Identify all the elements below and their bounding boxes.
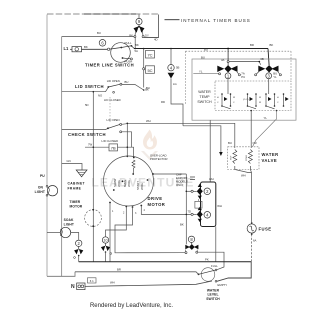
svg-text:WATER: WATER xyxy=(198,90,211,94)
svg-text:7B: 7B xyxy=(111,146,116,151)
left rail lower xyxy=(46,196,48,277)
check switch xyxy=(62,118,132,147)
svg-text:BU: BU xyxy=(97,31,101,35)
svg-text:TEMP: TEMP xyxy=(200,95,211,99)
circled 1 contact pair xyxy=(193,48,245,80)
svg-text:SOAK: SOAK xyxy=(64,218,74,222)
svg-text:TIMER LINE SWITCH: TIMER LINE SWITCH xyxy=(85,62,134,67)
svg-text:7D: 7D xyxy=(188,210,192,214)
svg-text:ONLY: ONLY xyxy=(176,183,184,187)
svg-text:PROTECTOR: PROTECTOR xyxy=(150,157,168,161)
svg-text:6A: 6A xyxy=(253,239,257,243)
svg-text:Rendered by LeadVenture, Inc.: Rendered by LeadVenture, Inc. xyxy=(90,303,173,309)
contacts inside water temp box xyxy=(222,94,284,106)
svg-text:BU: BU xyxy=(201,55,205,59)
dark bottom wire A xyxy=(79,261,252,263)
soak light xyxy=(47,218,79,240)
7C box xyxy=(146,51,155,59)
svg-text:BK: BK xyxy=(270,43,274,47)
svg-text:5B: 5B xyxy=(176,66,180,70)
5D drop / timer motor feed xyxy=(92,92,94,262)
svg-text:CABINET: CABINET xyxy=(68,182,85,186)
drive motor circle xyxy=(104,156,154,206)
svg-text:WDG: WDG xyxy=(127,180,131,187)
61 box xyxy=(88,278,97,283)
svg-text:INTERNAL TIMER BUSS: INTERNAL TIMER BUSS xyxy=(181,18,251,23)
BR return wire xyxy=(75,272,199,275)
valve outputs to fuse xyxy=(235,166,252,173)
svg-text:LID CLOSED: LID CLOSED xyxy=(104,98,121,102)
fuse xyxy=(247,222,271,262)
cabinet frame ground xyxy=(62,159,87,191)
water temp switch dashed box xyxy=(215,81,291,111)
circled 4 with contact xyxy=(161,48,183,126)
svg-text:WDG: WDG xyxy=(140,183,144,190)
svg-text:10: 10 xyxy=(104,239,108,243)
svg-text:BR: BR xyxy=(117,268,121,272)
svg-text:HOT: HOT xyxy=(231,155,233,160)
svg-text:LG: LG xyxy=(173,82,177,86)
svg-text:6 1: 6 1 xyxy=(90,279,94,283)
svg-text:PU: PU xyxy=(241,75,245,79)
5C box xyxy=(146,66,155,74)
internal timer buss callout xyxy=(165,19,180,21)
svg-text:SWITCH: SWITCH xyxy=(197,100,212,104)
svg-text:L1: L1 xyxy=(64,46,70,51)
svg-text:WH: WH xyxy=(146,119,151,123)
svg-text:3B: 3B xyxy=(260,57,264,61)
levers at bottom of temp switch xyxy=(224,97,289,101)
dashed link lid-check xyxy=(109,97,111,122)
connector contact 4 xyxy=(191,213,193,215)
circled 8 cam switch xyxy=(185,236,224,270)
svg-text:PULL: PULL xyxy=(125,41,132,45)
svg-text:BK: BK xyxy=(180,223,184,227)
svg-text:YL: YL xyxy=(273,75,277,79)
svg-text:WDG: WDG xyxy=(117,180,121,187)
svg-text:WH: WH xyxy=(110,281,115,285)
top rail (internal timer buss) xyxy=(47,13,159,15)
wire sw9 left contact to left drop xyxy=(62,36,135,38)
svg-text:FRAME: FRAME xyxy=(68,186,82,190)
left rail bottom corner xyxy=(47,272,75,277)
connector box with circled 2 and 4 xyxy=(201,182,216,227)
svg-text:FULL: FULL xyxy=(211,264,218,268)
7B box and wire xyxy=(85,146,109,148)
svg-text:LIGHT: LIGHT xyxy=(64,223,74,227)
svg-text:GN: GN xyxy=(67,159,71,163)
svg-text:LID SWITCH: LID SWITCH xyxy=(75,84,104,89)
box bottom exits xyxy=(250,110,252,112)
circled 3 contact pair xyxy=(255,65,282,79)
svg-text:BU: BU xyxy=(125,80,129,84)
circled 2 cam switch xyxy=(74,240,84,262)
svg-text:5A: 5A xyxy=(135,49,139,53)
svg-text:MOTOR: MOTOR xyxy=(148,202,166,207)
circled 6 xyxy=(99,40,106,47)
watermark flame logo xyxy=(141,130,158,161)
svg-text:YL: YL xyxy=(199,69,203,73)
sw9 left terminal down to main wire xyxy=(134,38,136,49)
svg-text:3A: 3A xyxy=(221,58,225,62)
svg-text:5D: 5D xyxy=(85,103,89,107)
svg-text:7C: 7C xyxy=(147,53,152,58)
svg-text:VALVE: VALVE xyxy=(262,158,278,163)
svg-text:FUSE: FUSE xyxy=(259,227,272,232)
on light xyxy=(35,185,58,196)
svg-text:LIGHT: LIGHT xyxy=(35,190,45,194)
motor internal labels (rotated) xyxy=(113,178,144,190)
BK drop right xyxy=(268,49,269,66)
svg-text:WH: WH xyxy=(241,174,246,178)
svg-text:PU: PU xyxy=(40,174,45,178)
sw9 right terminal to drop xyxy=(144,36,159,38)
svg-text:4D: 4D xyxy=(154,38,158,42)
svg-text:LID OPEN: LID OPEN xyxy=(107,118,120,122)
svg-text:5C: 5C xyxy=(147,68,152,73)
top rail right drop xyxy=(144,15,159,38)
switch 9 xyxy=(129,15,149,38)
svg-text:WH: WH xyxy=(209,177,214,181)
svg-text:7W: 7W xyxy=(88,143,93,147)
motor internal dots xyxy=(109,157,148,208)
svg-text:RD: RD xyxy=(161,100,165,104)
circled 10 cam switch xyxy=(101,237,112,262)
motor leads down xyxy=(109,203,111,262)
svg-text:DRIVE: DRIVE xyxy=(148,196,163,201)
lid switch xyxy=(62,79,150,102)
svg-text:EMPTY: EMPTY xyxy=(218,283,228,287)
svg-text:BK: BK xyxy=(135,43,139,47)
timer line switch xyxy=(107,41,138,63)
svg-text:N: N xyxy=(71,284,75,290)
motor exits right xyxy=(153,173,186,175)
water valve dashed box xyxy=(228,147,259,170)
wire A: check switch to water valve xyxy=(122,123,235,148)
connector contact 2 xyxy=(191,190,193,192)
timer motor xyxy=(70,200,102,227)
svg-text:WATER: WATER xyxy=(262,152,279,157)
left rail upper xyxy=(46,15,48,187)
svg-text:ON: ON xyxy=(38,186,44,190)
valve coils xyxy=(233,150,237,164)
svg-text:COLD: COLD xyxy=(246,155,248,161)
svg-text:BU: BU xyxy=(228,141,232,145)
svg-text:PK: PK xyxy=(205,258,209,262)
capacitor box xyxy=(195,201,202,208)
box bottom drop xyxy=(215,227,217,262)
svg-text:BR: BR xyxy=(250,43,254,47)
svg-text:BK: BK xyxy=(84,45,88,49)
water level switch xyxy=(198,264,228,301)
3A wire between pairs xyxy=(229,61,259,63)
cap export note xyxy=(176,173,188,188)
svg-text:LID CLOSED: LID CLOSED xyxy=(102,139,119,143)
solid box around water temp area xyxy=(192,59,296,120)
left feeder vertical x=61.7 xyxy=(61,37,63,277)
svg-text:GY: GY xyxy=(145,33,149,37)
svg-text:WH: WH xyxy=(217,204,222,208)
svg-text:TIMER: TIMER xyxy=(70,200,81,204)
svg-text:YL: YL xyxy=(264,116,268,120)
main wire y=48.5 xyxy=(134,48,268,50)
svg-text:BU: BU xyxy=(204,47,208,51)
start winding feed xyxy=(126,123,128,156)
svg-text:CHECK SWITCH: CHECK SWITCH xyxy=(68,132,106,137)
svg-text:LID OPEN: LID OPEN xyxy=(107,79,120,83)
stems into dashed box xyxy=(227,79,229,94)
dashed timer boundary lines xyxy=(186,50,292,52)
svg-text:(C-C): (C-C) xyxy=(243,99,249,101)
svg-text:MOTOR: MOTOR xyxy=(70,205,83,209)
svg-text:SWITCH: SWITCH xyxy=(206,297,220,301)
wire B drops from box bottom xyxy=(209,120,211,182)
BK drop from main wire xyxy=(143,49,145,88)
BK bypass wire down to switch 8 xyxy=(185,174,187,244)
svg-text:BU: BU xyxy=(146,86,150,90)
